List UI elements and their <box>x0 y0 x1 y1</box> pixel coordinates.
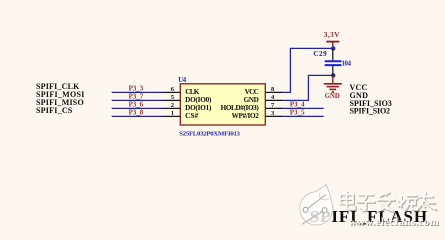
svg-text:GND: GND <box>244 96 259 104</box>
svg-text:WP#/IO2: WP#/IO2 <box>232 112 260 120</box>
U4 pin 5 stub <box>164 99 180 101</box>
svg-text:104: 104 <box>342 60 352 67</box>
ground <box>324 75 342 100</box>
wire net P3_6 to U4 pin 2 <box>112 107 164 109</box>
wire pin4 to GND rail <box>282 75 333 100</box>
svg-text:P3_8: P3_8 <box>129 110 144 117</box>
svg-text:CLK: CLK <box>185 88 200 96</box>
U4 pin 6 stub <box>164 91 180 93</box>
wire net P3_4 from pin 7 <box>282 107 324 109</box>
wire pin8 to 3.3V rail <box>282 48 333 92</box>
wire net P3_7 to U4 pin 5 <box>112 99 164 101</box>
svg-text:S25FL032P0XMFI013: S25FL032P0XMFI013 <box>179 130 240 137</box>
svg-text:CS#: CS# <box>185 112 199 120</box>
svg-text:P3_5: P3_5 <box>290 110 305 117</box>
capacitor C29 <box>325 48 342 75</box>
svg-text:1: 1 <box>171 110 174 117</box>
svg-text:VCC: VCC <box>245 88 259 96</box>
U4 pin 8 stub <box>266 91 283 93</box>
svg-text:P3_7: P3_7 <box>129 94 144 101</box>
U4 pin 3 stub <box>266 115 283 117</box>
power port 3,3V <box>324 30 341 49</box>
svg-text:SPIFI_SIO2: SPIFI_SIO2 <box>350 107 391 116</box>
svg-text:C29: C29 <box>313 50 327 58</box>
U4 pin 1 stub <box>164 115 180 117</box>
wire net P3_5 from pin 3 <box>282 115 324 117</box>
U4 pin 4 stub <box>266 99 283 101</box>
svg-text:DO(IO0): DO(IO0) <box>185 96 212 104</box>
U4 pin 2 stub <box>164 107 180 109</box>
svg-text:www.elecfans.com: www.elecfans.com <box>349 216 439 228</box>
svg-text:DO(IO1): DO(IO1) <box>185 104 212 112</box>
svg-text:U4: U4 <box>178 77 187 84</box>
svg-text:P3_3: P3_3 <box>129 86 144 93</box>
watermark www.elecfans.com <box>349 216 440 229</box>
svg-text:P3_4: P3_4 <box>290 102 305 109</box>
svg-text:SPIFI_CS: SPIFI_CS <box>36 106 73 115</box>
svg-text:HOLD#(IO3): HOLD#(IO3) <box>221 104 260 112</box>
IC U4 S25FL032P0XMFI013 body <box>180 84 265 125</box>
node junction at GND rail <box>331 73 335 77</box>
wire net P3_3 to U4 pin 6 <box>112 91 164 93</box>
svg-text:P3_6: P3_6 <box>129 102 144 109</box>
watermark logo leaf <box>300 185 333 225</box>
U4 pin 7 stub <box>266 107 283 109</box>
svg-text:3,3V: 3,3V <box>324 30 341 39</box>
node junction at 3.3V rail <box>331 46 335 50</box>
wire net P3_8 to U4 pin 1 <box>112 115 164 117</box>
svg-text:GND: GND <box>325 93 340 100</box>
